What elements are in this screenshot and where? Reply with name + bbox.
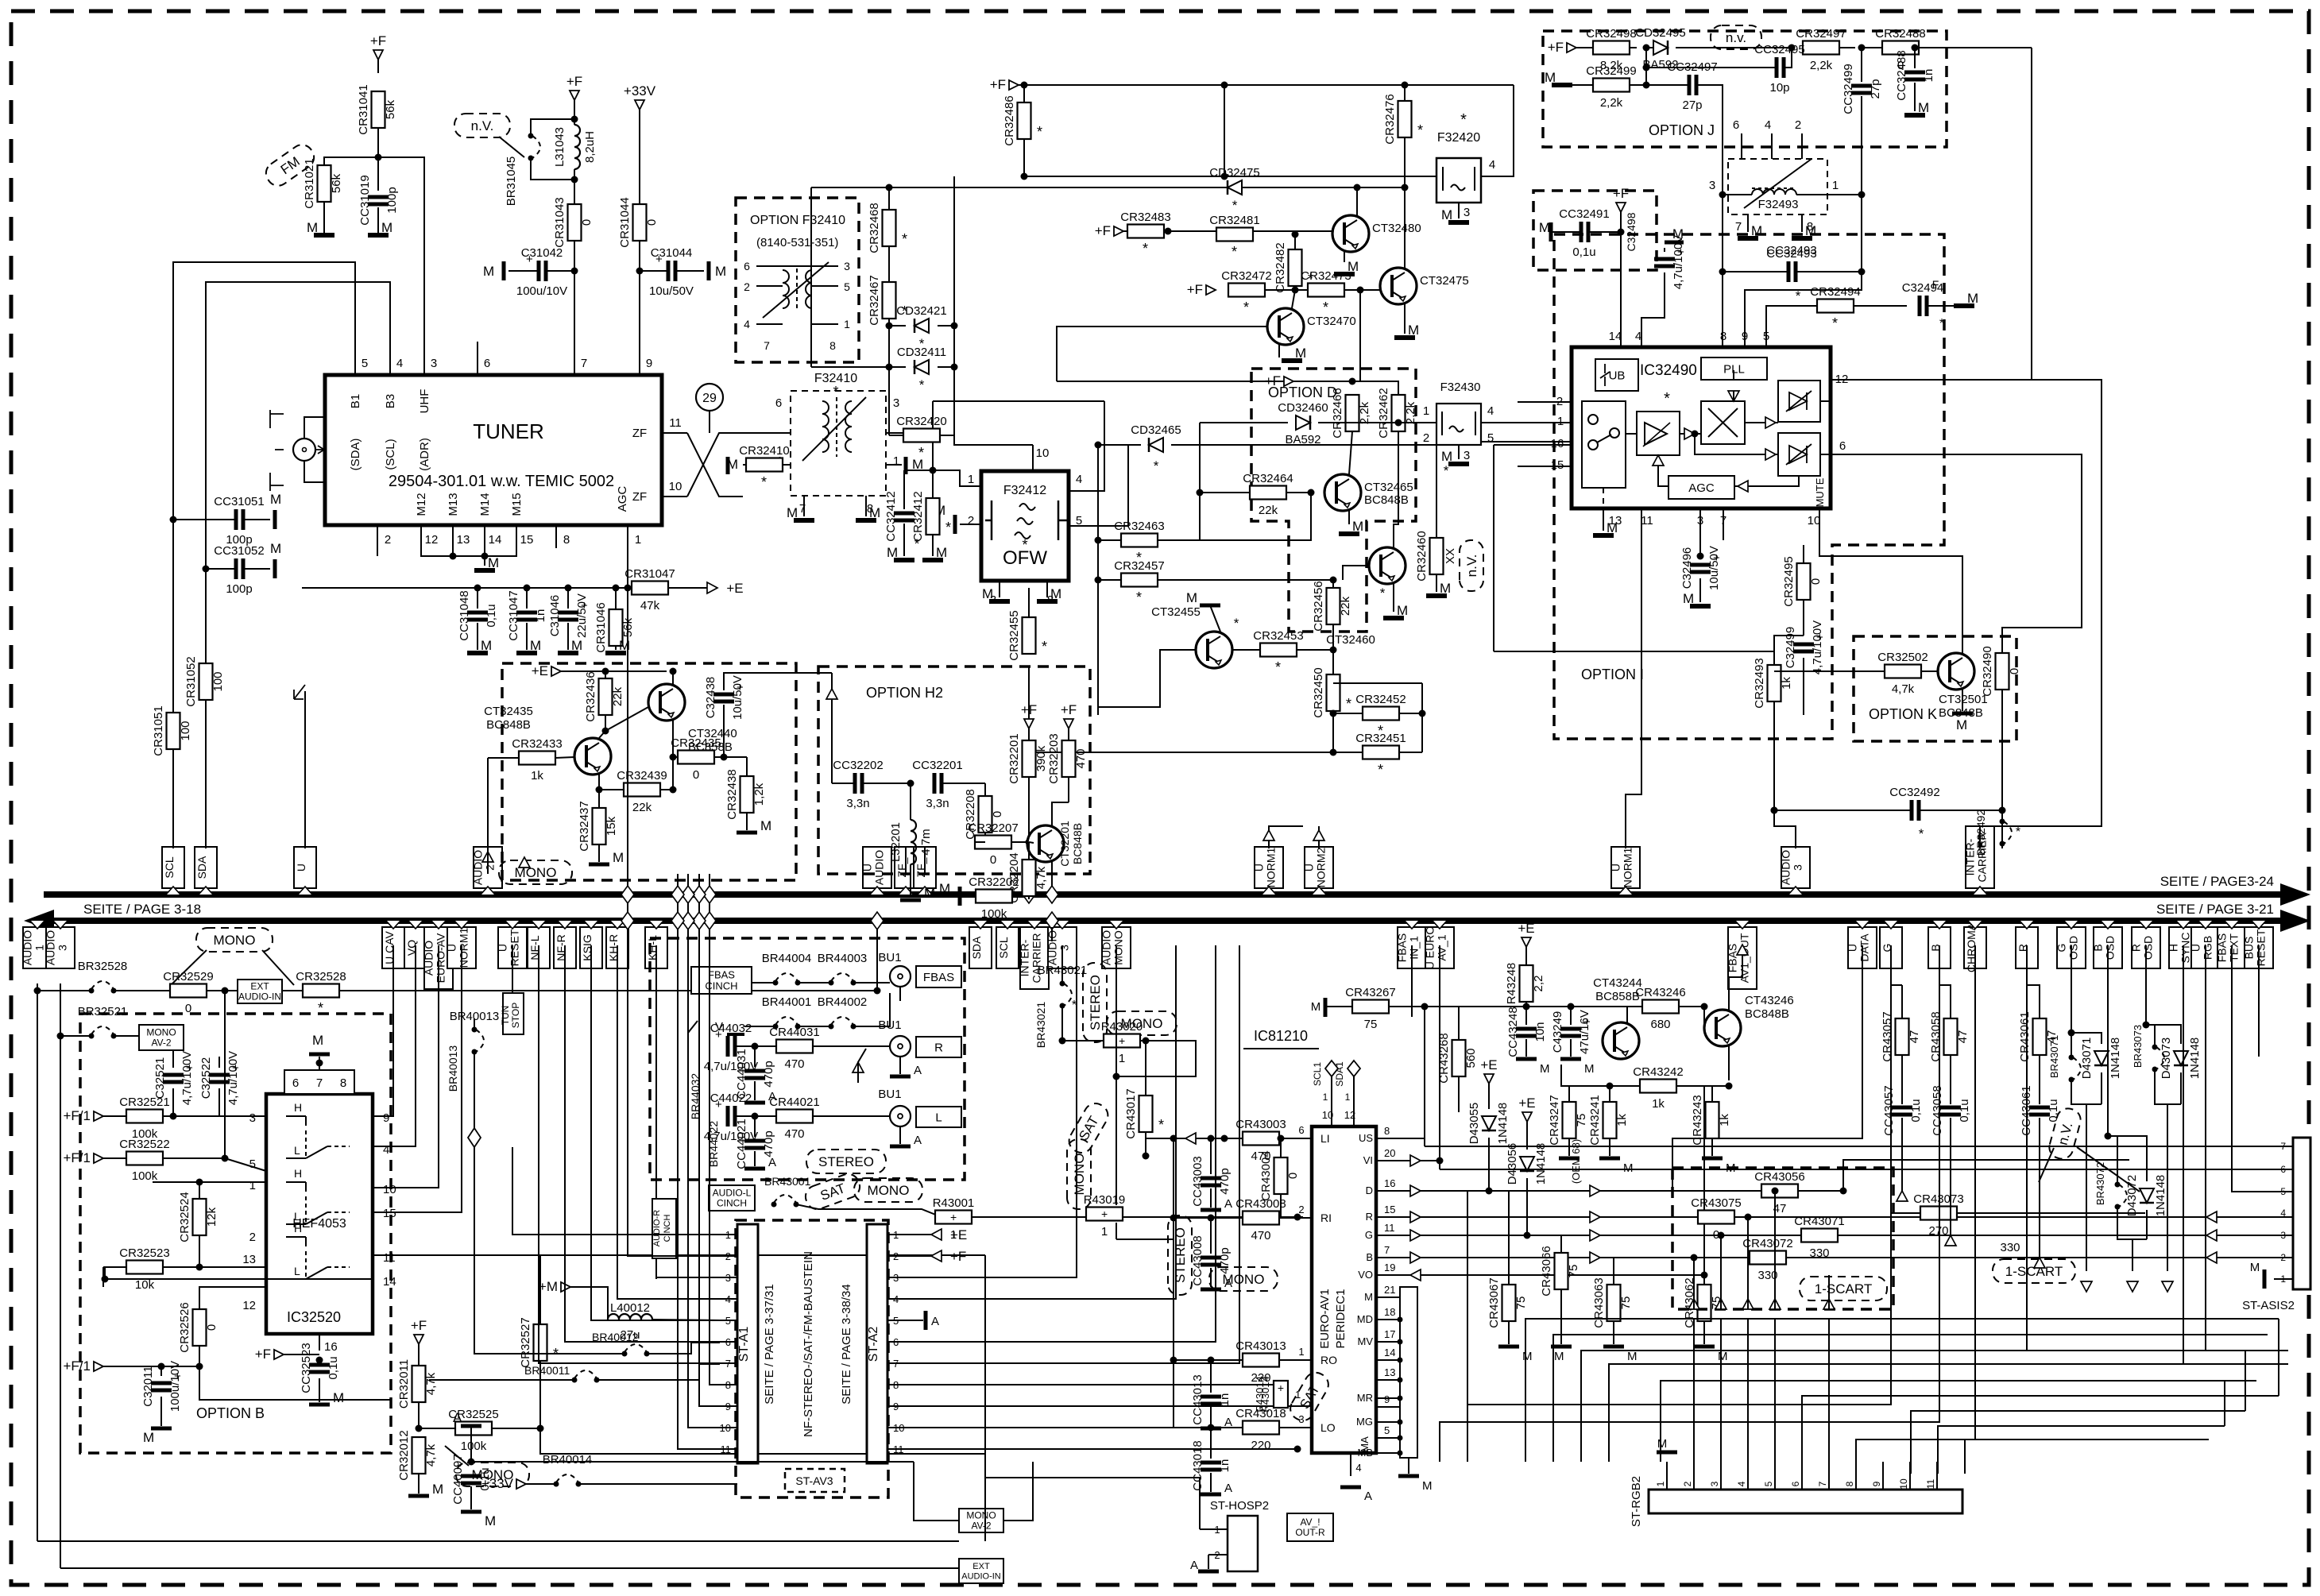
box ST-AV3 [785, 1469, 845, 1492]
svg-text:18: 18 [1384, 1306, 1395, 1318]
svg-text:CR32412: CR32412 [911, 491, 925, 541]
IC81210 pin US [1376, 1138, 1400, 1139]
wire CC43058 down [1950, 1118, 1951, 1235]
svg-text:ST-RGB2: ST-RGB2 [1630, 1476, 1643, 1527]
svg-text:XX: XX [1444, 548, 1457, 564]
svg-text:10: 10 [1898, 1478, 1909, 1490]
supply +E R43248 [1522, 937, 1531, 947]
svg-text:CR32523: CR32523 [119, 1246, 169, 1260]
svg-text:M: M [1627, 1350, 1638, 1363]
wire stA1 p5 [591, 1215, 720, 1320]
svg-text:L: L [294, 1265, 300, 1277]
net tag AUDIO 3 [1048, 927, 1077, 968]
svg-text:2,2k: 2,2k [1404, 401, 1417, 424]
wire BR31045 top [531, 119, 574, 136]
wire BR40012 out [647, 1343, 720, 1354]
svg-text:1: 1 [844, 318, 850, 330]
svg-text:MV: MV [1358, 1335, 1374, 1347]
ST-RGB2 pin stub 2 [1693, 1462, 1695, 1490]
tuner block [325, 375, 662, 525]
transistor CT32470 [1267, 308, 1304, 345]
IC U IC32520 [266, 1094, 373, 1334]
wire C32011 down [160, 1397, 162, 1426]
wire CT32470 e [1278, 345, 1280, 357]
wire optD top [1352, 381, 1398, 395]
wire CT32465 e [1348, 511, 1350, 524]
wire CD32465 right [1171, 444, 1438, 446]
wire stA1 p11 [678, 874, 720, 1449]
supply +33V CR31044 [635, 100, 644, 110]
wire stA2 p7 [906, 945, 1239, 1363]
junction [1607, 1083, 1614, 1090]
svg-text:F32420: F32420 [1437, 131, 1480, 145]
svg-text:20: 20 [1384, 1147, 1395, 1159]
junction [624, 585, 632, 592]
wire fb1 [752, 982, 775, 983]
note MONO [854, 1178, 922, 1202]
tuner pin 10 ZF [662, 496, 687, 497]
resistor R43001 [935, 1211, 972, 1224]
arrow rgb feed [1715, 1299, 1726, 1309]
ground F32430 [1448, 462, 1469, 466]
wire row left [37, 990, 91, 991]
resistor CR32455 [1023, 617, 1036, 654]
svg-text:12: 12 [242, 1299, 256, 1312]
net tag U NORM1 [1611, 847, 1640, 888]
wire CR32452 left [1333, 713, 1363, 714]
svg-text:CR32522: CR32522 [119, 1138, 169, 1151]
svg-text:AUDIO: AUDIO [472, 850, 485, 885]
wire j3 [1646, 47, 1653, 48]
svg-text:100p: 100p [226, 582, 252, 596]
ground A ST-A2 [924, 1311, 928, 1330]
wire CR32203 down [1068, 777, 1069, 802]
wire CR32453 right [1297, 649, 1333, 651]
svg-text:22k: 22k [1339, 596, 1352, 616]
wire KH-R col [617, 945, 618, 1235]
capacitor CC31019 [368, 195, 389, 199]
resistor CR32523 [126, 1261, 163, 1274]
wire CC32492 right [1920, 810, 2002, 811]
bridge BR43021 [1060, 981, 1073, 1009]
svg-text:*: * [1154, 458, 1159, 473]
note MONO [1209, 1267, 1278, 1291]
ground A CC44031 [744, 1101, 765, 1105]
OFW output plates [1058, 500, 1068, 540]
wire demod2-agc [1734, 476, 1799, 486]
net tag BUS RESET [2245, 927, 2273, 968]
arrow unorm1 [1263, 830, 1274, 841]
svg-text:330: 330 [2000, 1241, 2020, 1254]
svg-text:U: U [1846, 944, 1859, 952]
ground A CC40097 [461, 1424, 481, 1428]
wire route a [1525, 1319, 2279, 1462]
wire R43019 top [1116, 1196, 1117, 1205]
wire to F32410 p6 [743, 432, 791, 434]
diode CD32421 [914, 319, 929, 333]
junction [2143, 1022, 2150, 1029]
net tag AUDIO 3 [1781, 847, 1810, 888]
capacitor CC31048 [467, 611, 488, 615]
wire pin15 [1518, 466, 1571, 467]
ground CC43248 [1516, 1057, 1537, 1061]
bus joint [621, 886, 634, 903]
supply +F CR32483 [1114, 226, 1123, 236]
wire stA1 p8 [710, 874, 720, 1385]
svg-text:CR32502: CR32502 [1877, 651, 1928, 664]
svg-text:4: 4 [1765, 118, 1771, 132]
svg-text:M: M [488, 555, 499, 570]
svg-text:4,7u/100V: 4,7u/100V [1811, 620, 1824, 674]
svg-text:STOP: STOP [510, 1003, 521, 1028]
svg-text:A: A [1364, 1490, 1372, 1503]
svg-text:+E: +E [1480, 1057, 1497, 1072]
wire CC31051 left [173, 519, 234, 520]
IC81210 pin VO [1376, 1274, 1400, 1276]
svg-text:CC32492: CC32492 [1889, 786, 1939, 799]
svg-text:1: 1 [1655, 1481, 1666, 1486]
bus joint [671, 912, 684, 929]
svg-text:AUDIO-IN: AUDIO-IN [961, 1571, 1001, 1581]
wire F32430 out2 [1481, 441, 1571, 442]
junction [1170, 1135, 1177, 1142]
wire D43055 top [1488, 1084, 1490, 1109]
arrow VO [1410, 1269, 1421, 1281]
svg-text:CT32465: CT32465 [1364, 481, 1413, 494]
wire CR32412 gnd [932, 535, 934, 556]
svg-text:22k: 22k [611, 686, 624, 706]
ST-A2 pin stub 9 [887, 1405, 906, 1407]
wire stA1 p10 [688, 874, 720, 1428]
wire CR31041 to UHF pin [378, 157, 424, 342]
svg-text:MD: MD [1357, 1313, 1373, 1325]
svg-text:BUS: BUS [2243, 937, 2256, 960]
junction [670, 668, 677, 675]
wire D43071 down [2101, 1072, 2102, 1104]
resistor R43014 [1274, 1381, 1288, 1408]
svg-text:FBAS: FBAS [708, 968, 735, 980]
transformer option symbol [756, 262, 838, 324]
junction [602, 668, 609, 675]
wire B row [1400, 1257, 2293, 1258]
junction [1330, 647, 1337, 654]
net tag SCL [162, 847, 184, 888]
ground C31042 [502, 261, 506, 280]
option box OPTION D [1251, 369, 1416, 632]
wire +F CR32483 [1123, 230, 1127, 232]
wire CC32493 r [1796, 271, 1862, 272]
svg-text:IN_1: IN_1 [1408, 936, 1421, 960]
ST-A1 pin stub 8 [720, 1384, 737, 1385]
IC81210 pin MV [1376, 1341, 1400, 1343]
IC32520 switch 1 out [327, 1146, 350, 1147]
wire pin1 [1548, 422, 1571, 423]
svg-text:SEITE / PAGE 3-18: SEITE / PAGE 3-18 [83, 902, 201, 917]
ground plate ST-RGB2 [1657, 1451, 1677, 1455]
wire US link [1376, 1007, 1425, 1138]
wire CT32455 to CR32453 [1232, 649, 1260, 651]
svg-text:A: A [1224, 1482, 1232, 1495]
ground CR31046 [605, 651, 626, 655]
wire CT43246 base [1703, 1007, 1705, 1028]
junction [596, 786, 603, 794]
OFW squiggles [1015, 504, 1035, 539]
svg-text:13: 13 [457, 533, 470, 547]
svg-text:15: 15 [1551, 458, 1564, 472]
resistor CR43073 [1920, 1207, 1957, 1220]
wire j11 [1697, 85, 1723, 195]
note n.V. [454, 114, 510, 137]
wire route c [1581, 1351, 2288, 1462]
wire AGC down [627, 548, 628, 588]
inductor L40012 [608, 1314, 652, 1320]
svg-text:M: M [924, 886, 935, 901]
resistor CR31051 [167, 713, 180, 749]
wire R43001 out [972, 1216, 1303, 1218]
wire C32498 to pin4 [1641, 272, 1665, 347]
net tag AUDIO 1 [23, 927, 52, 968]
junction [1330, 710, 1337, 717]
svg-text:1-SCART: 1-SCART [2005, 1264, 2063, 1279]
wire CT43246 e [1728, 1046, 1730, 1080]
resistor CR32482 [1289, 249, 1302, 286]
wire into IC [225, 1158, 266, 1171]
svg-text:(ADR): (ADR) [418, 438, 431, 471]
ground V plate [727, 1033, 744, 1036]
svg-text:0,1u: 0,1u [2047, 1099, 2060, 1122]
wire CR32201 top [1028, 728, 1030, 740]
svg-text:3: 3 [1464, 206, 1470, 219]
wire amp-mixer [1680, 433, 1701, 435]
wire CR32435 l [673, 756, 678, 758]
wire F32430 p3 [1458, 445, 1460, 459]
svg-text:M: M [381, 220, 392, 235]
wire CC43008 down [1210, 1268, 1212, 1287]
resistor CR32437 [593, 808, 606, 844]
svg-text:CC32201: CC32201 [912, 759, 962, 772]
ground C32498 [1665, 241, 1684, 245]
ST-A1 pin stub 1 [720, 1234, 737, 1235]
filter F32430 [1436, 404, 1481, 445]
junction [1354, 184, 1361, 191]
svg-text:AV_1: AV_1 [1436, 934, 1448, 960]
wire +F p16 [284, 1354, 319, 1355]
svg-text:3: 3 [893, 396, 899, 410]
resistor CR31043 [568, 204, 582, 241]
wire C32522 down [218, 1088, 220, 1116]
svg-text:7: 7 [1735, 220, 1742, 234]
ground CT32480 [1334, 272, 1355, 276]
svg-text:1-SCART: 1-SCART [1815, 1281, 1872, 1297]
svg-text:CR32526: CR32526 [178, 1302, 191, 1352]
svg-text:CR31043: CR31043 [553, 197, 566, 247]
diode CD32475 [1228, 180, 1242, 195]
wire br bot [2071, 1080, 2102, 1104]
svg-text:M: M [1751, 223, 1762, 238]
wire CR32433 left [488, 757, 519, 759]
wire f1b [103, 1157, 126, 1159]
bus joint [671, 886, 684, 903]
svg-text:M: M [1364, 1291, 1373, 1303]
capacitor CC32492 [1910, 800, 1914, 821]
svg-text:AV-2: AV-2 [971, 1521, 991, 1532]
resistor CR43268 [1452, 1040, 1466, 1076]
resistor CR43267 [1352, 1000, 1389, 1014]
wire b2 [207, 990, 238, 991]
svg-text:M: M [1397, 603, 1408, 618]
wire p3 up [932, 401, 934, 433]
label EXT AUDIO-IN [238, 980, 282, 1003]
svg-text:+F/1: +F/1 [64, 1358, 91, 1374]
wire row into OPTION K [1774, 670, 1885, 672]
wire agc-amp [1658, 466, 1668, 486]
svg-text:CT43246: CT43246 [1745, 994, 1794, 1007]
wire U tag col [304, 691, 306, 848]
note n.V. [1460, 540, 1483, 591]
svg-text:0: 0 [693, 768, 699, 782]
wire CR32455 top [1028, 588, 1030, 617]
ST-A2 pin stub 7 [887, 1362, 906, 1364]
svg-text:10: 10 [1808, 514, 1821, 527]
svg-text:CC40097: CC40097 [451, 1454, 465, 1504]
capacitor CC32201 [933, 773, 937, 794]
IC81210 pin VI [1376, 1160, 1400, 1161]
svg-text:MONO: MONO [1223, 1272, 1265, 1287]
wire CR31043 down [574, 241, 575, 342]
wire F32493 p3 [1723, 194, 1752, 195]
svg-text:*: * [1378, 762, 1383, 778]
svg-text:FBAS: FBAS [1396, 933, 1409, 963]
junction [222, 1155, 229, 1162]
svg-text:7: 7 [764, 339, 770, 352]
wire stA2 p2 [906, 1255, 931, 1257]
svg-text:MR: MR [1357, 1392, 1373, 1404]
junction [1719, 269, 1726, 276]
svg-text:BR40013: BR40013 [447, 1045, 459, 1092]
wire nv pointer [499, 137, 524, 157]
resistor CR32201 [1023, 740, 1036, 777]
junction [1840, 1188, 1847, 1195]
wire 33v [526, 1483, 556, 1485]
wire nv ptr1 [2039, 1148, 2054, 1182]
ST-A2 pin stub 5 [887, 1320, 906, 1321]
wire CC44031 top [754, 1046, 756, 1067]
supply +F L31043 [570, 91, 579, 100]
svg-text:1k: 1k [1780, 677, 1793, 690]
svg-text:n.v.: n.v. [1726, 30, 1746, 45]
wire CR32201 down [1028, 777, 1030, 842]
wire CR43242 r [1676, 1085, 1729, 1087]
wire UAUDIO down [876, 927, 878, 991]
wire j8 [1572, 84, 1593, 86]
svg-text:(SCL): (SCL) [384, 439, 397, 470]
junction [1276, 1382, 1283, 1389]
note MONO [1067, 1139, 1091, 1209]
wire R43020 l [1062, 1040, 1104, 1041]
svg-text:CR43063: CR43063 [1592, 1277, 1606, 1327]
junction [951, 364, 958, 371]
svg-text:CR32464: CR32464 [1243, 472, 1293, 485]
svg-text:6: 6 [775, 396, 782, 410]
wire SCL1 down [1331, 1076, 1332, 1126]
ground CC32412 [894, 558, 914, 562]
svg-text:*: * [1832, 315, 1838, 331]
wire CR32486 top [1023, 85, 1025, 102]
svg-text:M: M [1441, 207, 1452, 222]
svg-text:4: 4 [744, 318, 750, 330]
arrow +E [707, 582, 717, 593]
svg-text:R43001: R43001 [933, 1196, 975, 1210]
svg-text:RI: RI [1320, 1211, 1332, 1224]
svg-text:U EURO: U EURO [1424, 926, 1436, 970]
svg-text:M: M [1440, 581, 1451, 596]
junction [316, 1060, 323, 1067]
svg-text:1k: 1k [1652, 1097, 1665, 1111]
svg-text:OPTION B: OPTION B [196, 1405, 265, 1421]
junction [203, 566, 210, 573]
svg-text:CR32410: CR32410 [739, 444, 789, 458]
svg-text:+E: +E [950, 1227, 967, 1242]
wire noop [719, 1376, 721, 1378]
junction [886, 364, 893, 371]
junction [1330, 577, 1337, 584]
wire D43071 top [2071, 1033, 2102, 1044]
wire C31044 right [676, 270, 704, 272]
svg-text:M: M [936, 545, 947, 560]
wire pin16 down [1493, 445, 1494, 651]
ST-RGB2 pin stub 5 [1774, 1462, 1776, 1490]
IC81210 pin M [1376, 1297, 1400, 1298]
net tag SDA [195, 847, 217, 888]
bus joint [1046, 886, 1058, 903]
svg-text:5: 5 [1763, 1481, 1774, 1486]
wire j15 [1861, 96, 1862, 195]
wire noop2 [2183, 1363, 2184, 1365]
wire BR40013 top [474, 1018, 475, 1030]
wire p16 down [319, 1334, 320, 1351]
capacitor C44022 [726, 1106, 730, 1126]
ST-A2 pin stub 8 [887, 1384, 906, 1385]
wire CR32410 left [743, 464, 746, 466]
wire noop4 [1409, 945, 1411, 946]
svg-text:AV_!: AV_! [1300, 1517, 1320, 1528]
svg-text:M: M [1295, 346, 1306, 361]
svg-text:G: G [1365, 1229, 1373, 1241]
ST-RGB2 pin stub 9 [1882, 1462, 1884, 1490]
wire C32438 down [723, 705, 725, 757]
svg-text:US: US [1359, 1132, 1373, 1144]
wire UEURO col to VI [1376, 945, 1440, 1161]
wire KH-L col [655, 945, 657, 1279]
svg-text:*: * [919, 377, 925, 392]
junction [1294, 1446, 1301, 1453]
wire rail CD column [888, 187, 890, 435]
wire stA2 p4 [906, 945, 1176, 1299]
arrow R in [2206, 1211, 2217, 1223]
ground CT32455 top [1200, 604, 1220, 608]
ground A CC43013 [1201, 1427, 1221, 1431]
junction [196, 1264, 203, 1271]
net tag AUDIO 2 [474, 847, 502, 888]
junction [450, 553, 457, 560]
wire AUDIO3 col [60, 983, 61, 1568]
arrow LI [1185, 1133, 1196, 1144]
junction [1701, 1272, 1708, 1279]
svg-text:470p: 470p [1218, 1168, 1232, 1194]
svg-text:R: R [2130, 944, 2143, 952]
wire CR43062 top [1703, 1275, 1705, 1285]
wire BR40013 down [474, 1052, 475, 1128]
